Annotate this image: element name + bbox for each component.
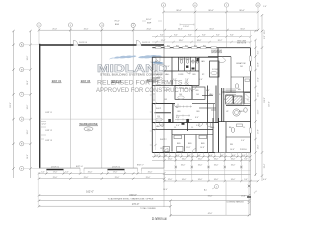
bottom dim string 2 (39, 178, 164, 180)
svg-text:CL: CL (191, 127, 193, 129)
svg-text:8'-8": 8'-8" (176, 117, 180, 119)
svg-text:COVERED PARKING: COVERED PARKING (226, 200, 244, 203)
interior left dim ticks office west (150, 62, 153, 145)
svg-text:24'-6": 24'-6" (27, 154, 29, 159)
svg-text:12'-0": 12'-0" (42, 124, 47, 126)
row leaders (24, 45, 39, 169)
interior wall v4 x199 (198, 57, 200, 85)
svg-text:OFF.: OFF. (195, 90, 199, 92)
svg-text:BAY #3: BAY #3 (112, 79, 122, 83)
parking dim row 3 (164, 180, 258, 182)
svg-text:FLOOR PLAN: FLOOR PLAN (152, 216, 167, 220)
col4 grid line (132, 27, 134, 168)
svg-text:DOOR #6: DOOR #6 (79, 42, 87, 44)
svg-text:6'-0": 6'-0" (176, 155, 180, 157)
parking dim row 1 (152, 156, 251, 158)
svg-text:1: 1 (216, 186, 217, 188)
grid bubble 8 (256, 3, 260, 7)
svg-text:7'-4": 7'-4" (185, 79, 189, 81)
svg-text:PORCH: PORCH (240, 149, 247, 151)
svg-text:104: 104 (179, 94, 182, 96)
svg-text:10'-6": 10'-6" (230, 149, 235, 151)
left dim ticks (12, 30, 31, 170)
entry room walls top right (208, 56, 231, 58)
svg-text:16'-0": 16'-0" (231, 159, 236, 161)
right bottom lines (171, 214, 250, 216)
row bubble D (20, 117, 24, 121)
row bubble A (20, 43, 24, 47)
row bubble F (20, 166, 24, 170)
svg-text:A-5: A-5 (204, 189, 207, 192)
hatched box 2 (234, 96, 242, 104)
svg-text:16'-0": 16'-0" (163, 189, 168, 191)
interior wall h y57 (152, 56, 218, 58)
svg-text:25'-0": 25'-0" (88, 172, 93, 174)
svg-text:16'-0": 16'-0" (181, 164, 186, 166)
svg-text:4'-0": 4'-0" (263, 179, 267, 181)
svg-text:DOOR #1: DOOR #1 (51, 166, 59, 168)
office east wall (250, 48, 252, 153)
window boxes on north wall (156, 47, 217, 49)
col3 grid line (101, 27, 103, 168)
svg-text:5'-0": 5'-0" (164, 155, 168, 157)
svg-text:13'-0": 13'-0" (258, 92, 260, 97)
svg-text:201: 201 (240, 66, 243, 68)
svg-text:11'-0": 11'-0" (186, 147, 191, 149)
top dim ticks (38, 29, 259, 32)
small rooms left of corridor (202, 95, 213, 97)
svg-text:24'-6": 24'-6" (27, 129, 29, 134)
left inner dim line (30, 31, 32, 178)
row bubble E (20, 142, 24, 146)
svg-text:13'-6": 13'-6" (160, 148, 165, 150)
svg-text:12'-0": 12'-0" (168, 159, 173, 161)
interior dim string x155.5 (155, 58, 157, 150)
svg-text:30'-0": 30'-0" (146, 19, 152, 21)
svg-text:24'-6": 24'-6" (27, 80, 29, 85)
top wall door 1 (swing) (74, 44, 79, 46)
svg-text:3'-0": 3'-0" (176, 125, 180, 127)
big room lower left office (152, 104, 173, 123)
svg-text:JAN.: JAN. (201, 60, 205, 63)
svg-text:17'-0": 17'-0" (113, 172, 118, 174)
left outer dim line (13, 31, 15, 178)
warehouse bottom wall (39, 167, 164, 169)
grid bubble 4 (131, 23, 135, 27)
left corner extension (37, 172, 39, 206)
warehouse east wall (col5) (163, 45, 165, 168)
svg-text:25'-0": 25'-0" (52, 28, 57, 30)
grid bubble 6 (193, 3, 197, 7)
svg-text:OFF.: OFF. (192, 74, 196, 76)
svg-text:5'-4": 5'-4" (196, 125, 200, 127)
svg-text:16'-0": 16'-0" (214, 179, 219, 181)
svg-text:30'-0": 30'-0" (178, 28, 183, 30)
svg-text:32'-0": 32'-0" (264, 29, 266, 34)
interior wall v5 x207 (207, 86, 209, 123)
svg-text:75'-0": 75'-0" (114, 21, 120, 23)
long dim 3 (39, 205, 171, 207)
svg-text:8'-0": 8'-0" (174, 35, 178, 37)
svg-text:HALL: HALL (210, 126, 215, 129)
counter bar in room (155, 112, 172, 114)
warehouse left wall (39, 44, 41, 169)
svg-text:8'-0": 8'-0" (188, 35, 192, 37)
svg-text:16'-8": 16'-8" (197, 40, 202, 42)
extension stubs south wall to dims (155, 153, 247, 161)
svg-text:16'-0": 16'-0" (214, 159, 219, 161)
toilet fixtures (180, 58, 199, 63)
porch shade bar (211, 50, 222, 53)
svg-text:19'-6": 19'-6" (241, 196, 246, 198)
svg-text:5'-2": 5'-2" (41, 172, 45, 174)
svg-text:25'-0": 25'-0" (84, 177, 89, 179)
svg-text:162'-0": 162'-0" (86, 190, 94, 193)
svg-text:10'-2": 10'-2" (164, 90, 169, 92)
grid bubble 2 (68, 23, 72, 27)
svg-text:CORR.: CORR. (178, 74, 184, 76)
office west wall (151, 57, 153, 152)
svg-text:16'-0": 16'-0" (214, 164, 219, 166)
svg-text:13'-0": 13'-0" (258, 144, 260, 149)
svg-text:137'-0": 137'-0" (269, 101, 271, 107)
svg-text:DOOR #2: DOOR #2 (112, 166, 120, 168)
parking mid line (164, 170, 251, 172)
svg-text:16'-0": 16'-0" (198, 164, 203, 166)
svg-text:25'-0": 25'-0" (148, 172, 153, 174)
column X marks (175, 166, 243, 168)
svg-text:42'-6": 42'-6" (208, 213, 213, 215)
interior wall v7 x231 (230, 57, 232, 92)
svg-text:103: 103 (164, 99, 167, 101)
interior wall h3 y103.6 (152, 103, 175, 105)
col5 leader long grid line (163, 7, 165, 30)
svg-text:21'-6": 21'-6" (258, 109, 260, 114)
svg-text:8'-0": 8'-0" (230, 35, 234, 37)
svg-text:92'-0": 92'-0" (208, 195, 213, 197)
svg-text:110: 110 (157, 116, 160, 118)
col2 grid line (69, 27, 71, 168)
grid bubble 3 (100, 23, 104, 27)
grid bubble 5 (161, 3, 165, 7)
svg-text:105: 105 (196, 94, 199, 96)
svg-text:BAY #1: BAY #1 (52, 79, 62, 83)
svg-text:1'-0": 1'-0" (263, 6, 267, 8)
svg-text:8'-0": 8'-0" (160, 35, 164, 37)
svg-text:150'-0": 150'-0" (129, 194, 137, 197)
svg-text:OFFICE: OFFICE (156, 74, 163, 76)
stair treads upper (226, 89, 237, 94)
svg-text:5'-2": 5'-2" (65, 172, 69, 174)
svg-text:12'-2": 12'-2" (160, 125, 165, 127)
svg-text:16'-0": 16'-0" (198, 159, 203, 161)
tub fixture (233, 109, 240, 116)
svg-text:25'-0": 25'-0" (84, 28, 89, 30)
svg-text:8'-0": 8'-0" (202, 35, 206, 37)
svg-text:24'-6": 24'-6" (27, 104, 29, 109)
room box upper mid (175, 86, 192, 100)
svg-text:24'-6": 24'-6" (27, 55, 29, 60)
svg-text:9'-0": 9'-0" (244, 159, 248, 161)
grid bubble 7 (224, 3, 228, 7)
svg-text:16'-0": 16'-0" (231, 179, 236, 181)
overhead door 2 bottom (108, 169, 125, 171)
svg-text:20'-2": 20'-2" (218, 40, 223, 42)
row bubble C (20, 92, 24, 96)
svg-text:30'-0": 30'-0" (209, 28, 214, 30)
svg-text:18'-0": 18'-0" (179, 40, 184, 42)
dim rows above office (152, 36, 251, 38)
lower office rooms (152, 129, 213, 131)
scatter marks office (160, 66, 245, 151)
svg-text:6'-0": 6'-0" (199, 79, 203, 81)
svg-text:9'-4": 9'-4" (241, 140, 245, 142)
svg-text:EXIT #7: EXIT #7 (137, 164, 143, 166)
bottom right marks (248, 185, 250, 187)
top right corner ticks/texts (254, 30, 263, 41)
svg-text:6'-0": 6'-0" (232, 155, 236, 157)
svg-text:9'-0": 9'-0" (244, 179, 248, 181)
svg-text:3'-8": 3'-8" (219, 94, 223, 96)
svg-text:5'-0": 5'-0" (220, 155, 224, 157)
long dim 2 (39, 200, 249, 202)
svg-text:CL: CL (243, 127, 245, 129)
small marks corridor x213 (211, 104, 216, 122)
bottom dim string 1 under warehouse (39, 173, 164, 175)
interior wall h4 y122.6 (152, 122, 218, 124)
col6 leader (194, 7, 196, 47)
svg-text:16'-0": 16'-0" (182, 179, 187, 181)
svg-text:CL: CL (247, 99, 249, 101)
svg-text:6'-0": 6'-0" (209, 155, 213, 157)
svg-text:5'-0": 5'-0" (155, 155, 159, 157)
svg-text:16'-0": 16'-0" (198, 179, 203, 181)
svg-text:17'-6": 17'-6" (258, 129, 260, 134)
svg-text:8'-0": 8'-0" (264, 35, 266, 39)
svg-text:12'-0": 12'-0" (168, 179, 173, 181)
office room ovals (156, 77, 162, 80)
svg-text:5'-0": 5'-0" (187, 155, 191, 157)
svg-text:SHOP 2: SHOP 2 (160, 139, 167, 141)
svg-text:TOTAL COVERED: TOTAL COVERED (140, 207, 156, 210)
grid bubble 1 (37, 23, 41, 27)
wall-to-dim stubs (46, 170, 141, 173)
svg-text:9'-0": 9'-0" (258, 50, 260, 54)
bubble tag bottom (215, 185, 219, 189)
svg-text:STEEL BUILDING SYSTEMS COMPANY: STEEL BUILDING SYSTEMS COMPANY (100, 74, 164, 77)
svg-text:8'-0": 8'-0" (216, 35, 220, 37)
overhead door 1 bottom (46, 169, 63, 171)
svg-text:GREAT RM: GREAT RM (236, 62, 246, 65)
svg-text:23'-4": 23'-4" (264, 163, 266, 168)
svg-text:25'-0": 25'-0" (53, 177, 58, 179)
svg-text:SEE NOTE: SEE NOTE (237, 43, 247, 45)
svg-text:HALL: HALL (165, 73, 170, 76)
svg-text:30'-0": 30'-0" (239, 10, 245, 12)
svg-text:EXIT #1: EXIT #1 (46, 112, 52, 114)
svg-text:105'-0": 105'-0" (264, 97, 266, 103)
svg-text:CL: CL (174, 127, 176, 129)
svg-text:FOYER: FOYER (212, 69, 219, 71)
wall h y78 partial (152, 77, 160, 79)
svg-text:30'-0": 30'-0" (208, 10, 214, 12)
col7 leader (226, 7, 228, 47)
svg-text:BSF: BSF (115, 24, 120, 26)
lower right rooms (225, 122, 227, 153)
col8 leader (257, 7, 259, 30)
svg-text:DOOR #5: DOOR #5 (142, 42, 150, 44)
east wall window boxes (250, 56, 252, 61)
door arcs office (156, 57, 226, 153)
interior wall h2 y85.5 (152, 85, 199, 87)
svg-text:8'-0": 8'-0" (195, 117, 199, 119)
svg-text:OFF.: OFF. (196, 111, 200, 113)
svg-text:9'-2": 9'-2" (173, 79, 177, 81)
svg-text:16'-0": 16'-0" (231, 164, 236, 166)
top wall door 2 (swing) (137, 44, 142, 46)
long dim 1 (39, 195, 249, 197)
svg-text:17'-0": 17'-0" (258, 77, 260, 82)
svg-text:30'-0": 30'-0" (176, 10, 182, 12)
office north wall (152, 47, 250, 49)
great room subdivision (231, 76, 251, 78)
svg-text:5'-0": 5'-0" (242, 155, 246, 157)
row D light line (40, 118, 164, 120)
extension stubs parking line to dim3 (165, 175, 242, 182)
svg-text:122'-6": 122'-6" (10, 102, 12, 108)
interior dim ticks row in office (175, 106, 192, 108)
svg-text:TO ALTERNATE STEEL # WAREHOUSE: TO ALTERNATE STEEL # WAREHOUSE / OFFICE (108, 198, 154, 201)
parking dim row 2 (152, 159, 251, 161)
svg-text:25'-0": 25'-0" (146, 177, 151, 179)
right section walls (221, 88, 223, 122)
top dimension line (39, 29, 258, 31)
parking columns verticals (176, 153, 242, 175)
svg-text:OFF.: OFF. (191, 61, 195, 63)
svg-text:1 20'-0": 1 20'-0" (183, 26, 189, 28)
svg-text:17'-0": 17'-0" (53, 172, 58, 174)
closet boxes above south wall (174, 135, 182, 138)
svg-text:EXIT #2: EXIT #2 (46, 130, 52, 132)
svg-text:WAREHOUSE: WAREHOUSE (79, 122, 97, 126)
parking south line (164, 174, 251, 176)
svg-text:4'-6": 4'-6" (206, 90, 210, 92)
svg-text:EXIT #3: EXIT #3 (46, 140, 52, 142)
svg-text:BATH: BATH (239, 110, 244, 113)
svg-text:BAY #2: BAY #2 (81, 79, 91, 83)
svg-text:OFF.: OFF. (177, 111, 181, 113)
svg-text:BSF: BSF (147, 23, 152, 25)
parking east line (250, 153, 252, 216)
restroom row walls (178, 57, 180, 71)
interior wall v6 x218 (217, 48, 219, 123)
svg-text:16'-0": 16'-0" (182, 159, 187, 161)
dim line between bubbles 5-8 (164, 11, 259, 13)
office south wall (152, 152, 215, 154)
svg-text:25'-0": 25'-0" (147, 28, 152, 30)
closet right (245, 93, 251, 104)
svg-text:25'-0": 25'-0" (115, 177, 120, 179)
row bubble B (20, 68, 24, 72)
svg-text:170'-0": 170'-0" (132, 203, 140, 206)
office tiny labels (155, 60, 249, 151)
svg-text:13'-6": 13'-6" (258, 62, 260, 67)
svg-text:SHOP: SHOP (156, 108, 162, 110)
door opening bottom wall 1 (80, 168, 84, 169)
col1 leader below bubble (38, 27, 40, 45)
interior wall v2 x172 (171, 57, 173, 85)
svg-text:10'-8": 10'-8" (200, 147, 205, 149)
dark jamb marks (168, 119, 171, 122)
svg-text:CONF. RM: CONF. RM (179, 88, 188, 90)
svg-text:12'-4": 12'-4" (161, 40, 166, 42)
warehouse top wall (39, 44, 164, 46)
svg-text:101: 101 (156, 81, 159, 83)
hatched box 1 (226, 95, 233, 104)
corridor east wall x216 (215, 86, 217, 123)
svg-text:5'-0": 5'-0" (197, 155, 201, 157)
svg-text:30'-0": 30'-0" (240, 28, 245, 30)
svg-text:5'-0": 5'-0" (166, 66, 170, 68)
foyer box (210, 61, 220, 77)
midland cloud logo (109, 55, 164, 64)
